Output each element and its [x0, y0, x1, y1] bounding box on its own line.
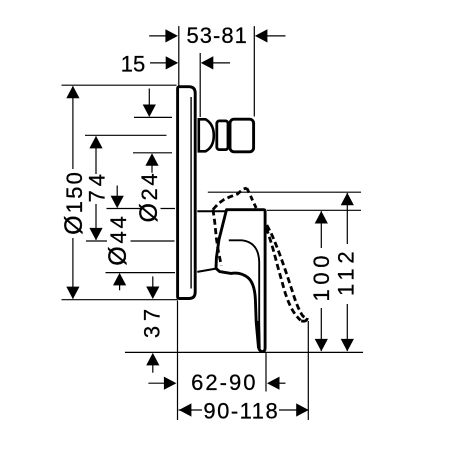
O24 top (down, outside above) — [143, 105, 156, 118]
valve dome — [199, 119, 214, 151]
90-118 right (points right) — [296, 403, 309, 416]
O150 bottom (down) — [66, 287, 79, 300]
svg-text:53-81: 53-81 — [187, 23, 248, 48]
15 right (points left) — [201, 56, 214, 69]
dim O44 tails — [116, 186, 118, 197]
100 top (up) — [315, 211, 328, 224]
svg-text:37: 37 — [139, 304, 164, 338]
dim 53-81 tails — [149, 35, 167, 37]
handle collar top line — [197, 210, 225, 212]
ext line O44 bottom y272.6 — [106, 272, 176, 274]
text background 74 — [87, 174, 106, 203]
dim 37 tails — [152, 276, 154, 287]
text background 112 — [336, 249, 357, 299]
dim 112 line — [346, 193, 348, 244]
O44 bottom (up, outside below) — [113, 273, 126, 286]
37 top (down, outside above) — [146, 287, 159, 300]
valve small cylinder — [217, 121, 228, 150]
text background 100 — [310, 253, 332, 305]
ext line 74 top y135 — [85, 134, 167, 136]
53-81 right (points left) — [255, 29, 268, 42]
ext line O150 bottom y299.7 — [62, 299, 178, 301]
dim 90-118 line — [179, 409, 309, 411]
svg-text:Ø44: Ø44 — [104, 213, 132, 265]
text background O24 — [142, 173, 161, 229]
ext line top wall x179 — [178, 26, 180, 85]
74 bottom (down) — [89, 228, 102, 241]
dashed grip outer edge — [267, 225, 307, 319]
dashed handle top edge — [213, 188, 247, 209]
ext line dashed tip x308.3 — [307, 321, 309, 420]
ext line O150 top y85 — [62, 84, 177, 86]
ext line tip level y352.4 — [125, 351, 363, 353]
plate inner face line — [190, 97, 192, 289]
62-90 left (points right) — [164, 377, 177, 390]
112 bottom (down) — [341, 339, 354, 352]
ext line 74 bottom y241 — [86, 240, 175, 242]
escutcheon plate outer — [178, 87, 196, 299]
handle grip wedge — [256, 321, 261, 349]
O44 top (down, outside above) — [111, 196, 124, 209]
text background 90-118 — [202, 402, 279, 419]
svg-text:Ø150: Ø150 — [60, 170, 88, 235]
ext line O44 top y208.5 — [107, 208, 176, 210]
svg-text:100: 100 — [309, 251, 334, 302]
svg-text:15: 15 — [121, 52, 145, 77]
dim 74 line — [95, 137, 97, 175]
53-81 left (points right) — [165, 29, 178, 42]
37 bottom (up, outside below) — [146, 353, 159, 366]
ext line 100 top y210.3 — [267, 209, 361, 211]
text background O150 — [63, 169, 83, 237]
dim O150 line — [72, 86, 74, 169]
svg-text:Ø24: Ø24 — [135, 171, 163, 223]
74 top (up) — [89, 136, 102, 149]
svg-text:90-118: 90-118 — [203, 398, 279, 423]
dim 62-90 tails — [148, 382, 164, 384]
dashed grip tip — [300, 318, 308, 321]
ext line O24 top y117 — [134, 116, 172, 118]
ext line handle tip x266 — [265, 353, 267, 392]
handle collar bottom line — [197, 269, 216, 272]
svg-text:62-90: 62-90 — [191, 370, 257, 395]
svg-text:74: 74 — [85, 170, 110, 202]
112 top (up) — [341, 193, 354, 206]
dashed handle right upper edge — [247, 188, 256, 208]
ext line 112 top y192 — [208, 191, 361, 193]
100 bottom (down) — [315, 339, 328, 352]
O24 bottom (up, outside below) — [145, 153, 158, 166]
62-90 right (points left) — [267, 377, 280, 390]
ext line top x200 — [199, 53, 201, 117]
15 left (points right) — [166, 56, 179, 69]
dashed grip inner edge — [266, 228, 300, 320]
handle lever body — [216, 210, 265, 352]
handle inner curve — [229, 240, 260, 345]
ext line O24 bottom y153 — [133, 152, 172, 154]
dim 100 line — [320, 211, 322, 248]
valve end cap — [230, 119, 254, 152]
text background O44 — [107, 215, 131, 267]
dim O24 tails — [148, 89, 150, 106]
dashed handle left edge — [213, 210, 221, 266]
text background 37 — [142, 307, 162, 340]
dim 15 tails — [150, 62, 167, 64]
ext line bottom-left x177.5 — [177, 301, 179, 421]
svg-text:112: 112 — [333, 247, 358, 296]
90-118 left (points left) — [179, 403, 192, 416]
ext line top spout tip x254 — [253, 26, 255, 116]
O150 top (up) — [66, 86, 79, 99]
